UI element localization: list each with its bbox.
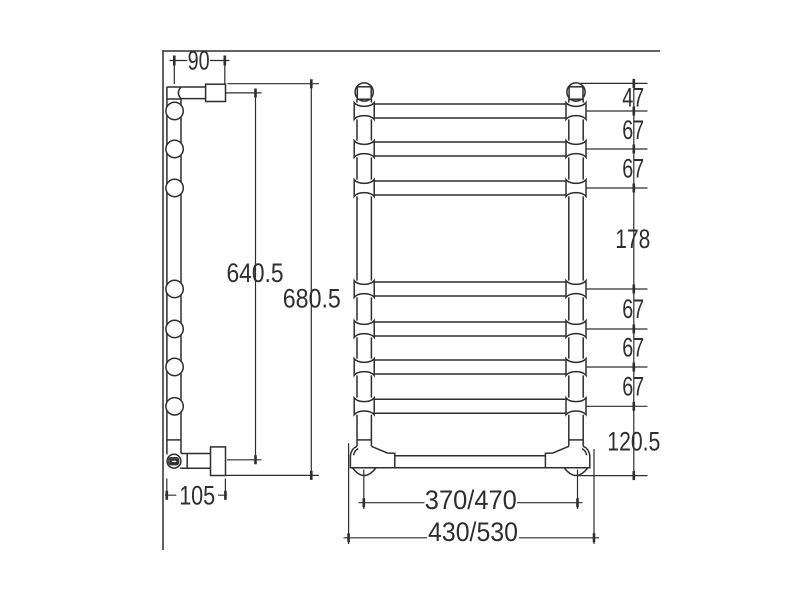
side rung circle 3 bbox=[166, 179, 183, 196]
svg-text:67: 67 bbox=[622, 372, 644, 402]
left cap ball bbox=[355, 83, 373, 101]
side rung circle 6 bbox=[166, 358, 183, 375]
dim 90 lines bbox=[170, 61, 230, 85]
dim 105 lines bbox=[165, 479, 227, 500]
svg-text:67: 67 bbox=[622, 333, 644, 363]
dim 430/530 lines bbox=[344, 443, 600, 544]
joint R3 bbox=[566, 180, 586, 197]
right chain dim line bbox=[633, 83, 635, 475]
rung 7 bbox=[374, 399, 566, 413]
svg-text:680.5: 680.5 bbox=[283, 283, 341, 313]
joint R6 bbox=[566, 359, 586, 376]
DIMENSIONS bbox=[165, 61, 648, 545]
rung 6 bbox=[374, 360, 566, 374]
joint R1 bbox=[566, 103, 586, 120]
dim 640.5 line bbox=[226, 93, 262, 460]
side tube left edge bbox=[166, 99, 168, 455]
ext line rung2 bbox=[587, 148, 648, 150]
left foot bbox=[350, 446, 394, 468]
left tube segments bbox=[356, 99, 358, 446]
drawing frame border left bbox=[162, 50, 164, 550]
rung 1 bbox=[374, 104, 566, 118]
svg-text:90: 90 bbox=[188, 46, 210, 76]
svg-text:430/530: 430/530 bbox=[428, 517, 518, 547]
joint R2 bbox=[566, 141, 586, 158]
tick marks bbox=[167, 56, 634, 543]
dimension texts bbox=[179, 46, 660, 548]
right foot ball bbox=[564, 468, 588, 476]
rung 4 bbox=[374, 282, 566, 296]
ticks 90 bbox=[174, 56, 225, 66]
joint L4 bbox=[354, 281, 374, 298]
svg-text:67: 67 bbox=[622, 154, 644, 184]
left tube bottom joint line bbox=[357, 439, 371, 441]
right foot bbox=[545, 446, 589, 468]
ext line rung4 bbox=[587, 288, 648, 290]
joint L7 bbox=[354, 398, 374, 415]
side tube bottom joint line bbox=[167, 439, 181, 441]
joint R7 bbox=[566, 398, 586, 415]
bottom arm top line bbox=[180, 454, 210, 469]
right foot inner arc bbox=[582, 449, 587, 456]
right tube segments bbox=[568, 99, 570, 446]
left foot ball bbox=[352, 468, 376, 476]
side tube right edge bbox=[180, 99, 182, 454]
svg-text:120.5: 120.5 bbox=[607, 426, 660, 456]
right tube bottom joint line bbox=[569, 439, 583, 441]
ext line bottom bbox=[578, 475, 648, 477]
drawing frame border top bbox=[163, 50, 660, 52]
side rung circle 2 bbox=[166, 140, 183, 157]
joint L1 bbox=[354, 103, 374, 120]
ext line top bbox=[581, 82, 648, 84]
bottom valve ball bbox=[167, 454, 181, 468]
side rung circle 7 bbox=[166, 398, 183, 415]
ticks 430/530 bbox=[349, 533, 594, 542]
left foot inner arc bbox=[354, 449, 359, 456]
ticks 370/470 bbox=[364, 498, 578, 507]
ticks right chain bbox=[632, 79, 635, 480]
joint L3 bbox=[354, 180, 374, 197]
valve knob inner bbox=[171, 460, 177, 463]
svg-text:178: 178 bbox=[615, 224, 650, 254]
joint R5 bbox=[566, 321, 586, 338]
joint R4 bbox=[566, 281, 586, 298]
bottom wall bracket bbox=[211, 447, 226, 476]
joint L5 bbox=[354, 321, 374, 338]
ext line rung3 bbox=[587, 187, 648, 189]
ticks 680.5 bbox=[310, 79, 313, 480]
ext line rung5 bbox=[587, 328, 648, 330]
side rung circle 5 bbox=[166, 320, 183, 337]
top wall bracket bbox=[206, 84, 226, 101]
top elbow bbox=[167, 87, 206, 99]
dim 370/470 lines bbox=[359, 470, 583, 510]
svg-text:105: 105 bbox=[179, 480, 215, 510]
bottom crossbar bbox=[395, 456, 546, 468]
right cap body bbox=[569, 87, 583, 99]
side rung circle 4 bbox=[166, 280, 183, 297]
svg-text:67: 67 bbox=[622, 115, 644, 145]
joint L2 bbox=[354, 141, 374, 158]
rung 5 bbox=[374, 322, 566, 336]
svg-text:640.5: 640.5 bbox=[227, 258, 284, 288]
svg-text:67: 67 bbox=[622, 294, 644, 324]
svg-text:47: 47 bbox=[622, 83, 644, 113]
ext line rung6 bbox=[587, 366, 648, 368]
left cap body bbox=[357, 87, 371, 99]
joint L6 bbox=[354, 359, 374, 376]
ticks 105 bbox=[167, 491, 226, 500]
side rung circle 1 bbox=[166, 102, 183, 119]
dim 680.5 line bbox=[226, 84, 319, 476]
right cap ball bbox=[567, 83, 585, 101]
ticks 640.5 bbox=[254, 89, 257, 465]
svg-text:370/470: 370/470 bbox=[425, 485, 517, 515]
rung 3 bbox=[374, 181, 566, 195]
valve knob bbox=[169, 458, 179, 465]
ext line rung7 bbox=[587, 405, 648, 407]
ext line rung1 bbox=[587, 110, 648, 112]
rung 2 bbox=[374, 142, 566, 156]
